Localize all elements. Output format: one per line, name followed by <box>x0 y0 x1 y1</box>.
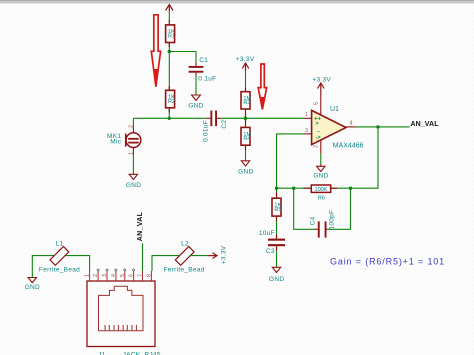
node junction C4 left <box>292 187 295 190</box>
resistor R6 <box>311 185 330 201</box>
power +3.3V top of R1 <box>166 5 173 12</box>
svg-text:AN_VAL: AN_VAL <box>411 121 440 128</box>
jack pin 6 <box>133 271 135 281</box>
node junction C4 right <box>349 187 352 190</box>
wire pin3 net <box>277 134 305 188</box>
capacitor C1 <box>189 57 217 83</box>
wire C3 to gnd <box>276 246 278 267</box>
jack pin 7 <box>142 271 144 281</box>
wire feedback vertical <box>351 127 379 188</box>
svg-text:JACK_RJ45: JACK_RJ45 <box>123 351 161 355</box>
resistor R4 <box>241 127 252 145</box>
ground under R4 <box>238 161 253 176</box>
op-amp pin 4 output <box>346 126 356 128</box>
svg-text:3: 3 <box>305 128 308 134</box>
resistor R3 <box>241 92 252 109</box>
svg-text:10uF: 10uF <box>259 230 275 237</box>
svg-text:Mic: Mic <box>110 139 121 146</box>
pin stubs <box>169 20 337 251</box>
wire mic to junction to C2 <box>133 117 206 119</box>
jack pin 4 <box>115 271 117 281</box>
wire gnd to L1 <box>32 256 54 278</box>
inductor L1 <box>39 240 80 273</box>
node junction output/feedback <box>376 125 379 128</box>
wire R6 left <box>277 187 310 189</box>
wire output to label <box>356 126 410 128</box>
wire junction to R2 <box>168 52 170 91</box>
svg-text:GND: GND <box>313 173 328 180</box>
resistor R5 <box>272 198 282 216</box>
wire C4 branch <box>294 188 351 229</box>
svg-text:U1: U1 <box>330 106 339 113</box>
node junction C2/R3/R4 <box>244 117 248 121</box>
svg-text:R2: R2 <box>168 99 175 105</box>
capacitor C4 <box>310 210 336 238</box>
svg-text:7: 7 <box>138 274 144 277</box>
svg-text:R3: R3 <box>243 100 250 106</box>
jack pin 3 <box>106 271 108 281</box>
svg-text:4: 4 <box>350 121 353 127</box>
svg-text:2: 2 <box>314 145 320 148</box>
wire R1 to junction <box>168 43 170 52</box>
op-amp U1 pin 1 <box>304 117 312 119</box>
wire node to R4 <box>245 118 247 127</box>
wire junction to R5 <box>276 188 278 198</box>
wire R2 to node <box>168 108 170 119</box>
probe arrow 2 <box>258 64 267 109</box>
svg-text:4: 4 <box>111 274 117 277</box>
capacitor C3 <box>259 230 285 255</box>
capacitor C2 <box>202 111 227 143</box>
wire node to op-amp pin1 <box>245 117 304 119</box>
svg-text:3: 3 <box>102 274 108 277</box>
svg-text:2: 2 <box>128 125 134 128</box>
jack inner silhouette <box>99 286 144 330</box>
resistor R1 <box>166 25 176 43</box>
svg-text:1: 1 <box>305 112 308 118</box>
ground under C1 <box>188 95 203 110</box>
svg-text:+3.3V: +3.3V <box>220 245 227 264</box>
svg-text:0.01uF: 0.01uF <box>202 120 209 142</box>
wire L2 to power <box>190 255 208 257</box>
power +3.3V right of L2 <box>208 245 227 264</box>
svg-text:AN_VAL: AN_VAL <box>137 211 144 241</box>
svg-text:R4: R4 <box>243 136 250 142</box>
svg-text:GND: GND <box>188 103 203 110</box>
svg-text:R5: R5 <box>274 207 281 213</box>
svg-text:->: -> <box>316 135 321 141</box>
inductor L2 <box>164 240 205 273</box>
wire C2 to node <box>222 117 246 119</box>
node junction R5/pin3 <box>275 187 278 190</box>
svg-text:1: 1 <box>85 274 91 277</box>
svg-text:0.1uF: 0.1uF <box>198 76 216 83</box>
svg-text:C3: C3 <box>266 248 275 255</box>
svg-text:Ferrite_Bead: Ferrite_Bead <box>164 267 205 274</box>
svg-text:GND: GND <box>126 182 141 189</box>
svg-text:>: > <box>316 121 319 127</box>
wire power to R3 <box>245 71 247 92</box>
op-amp U1 body <box>312 106 364 150</box>
svg-text:R1: R1 <box>168 34 175 40</box>
power +3.3V above op-amp <box>312 76 331 95</box>
jack pin 2 <box>97 271 99 281</box>
wire C1 to gnd <box>195 77 197 96</box>
ground under C3 <box>269 267 284 283</box>
power +3.3V above R3 <box>236 56 255 71</box>
wire R3 to node <box>245 109 247 118</box>
microphone MK1 <box>107 118 141 155</box>
svg-text:C2: C2 <box>221 120 228 129</box>
wire R1 top <box>168 11 170 21</box>
wire mic to gnd <box>132 154 134 175</box>
wire L1 to jack pin1 <box>65 256 90 271</box>
svg-text:+3.3V: +3.3V <box>236 56 255 63</box>
resistor R2 <box>166 90 176 108</box>
svg-text:6: 6 <box>129 274 135 277</box>
op-amp U1 pin 3 <box>304 133 312 135</box>
svg-text:5: 5 <box>120 274 126 277</box>
jack pin 5 <box>124 271 126 281</box>
svg-text:MAX4466: MAX4466 <box>333 143 364 150</box>
ground under op-amp <box>313 166 328 179</box>
wire AN_VAL to jack pin7 <box>142 244 144 272</box>
svg-text:C4: C4 <box>310 216 317 225</box>
jack pin 8 <box>150 271 152 281</box>
wire R6 right <box>331 187 351 189</box>
svg-text:Ferrite_Bead: Ferrite_Bead <box>39 267 80 274</box>
svg-text:R6: R6 <box>318 195 325 201</box>
node junction R1/R2/C1 <box>168 50 171 53</box>
jack pin 1 <box>89 271 91 281</box>
svg-text:GND: GND <box>25 284 40 291</box>
svg-text:100pF: 100pF <box>328 210 335 230</box>
op-amp pin 2 (GND) <box>320 140 322 153</box>
svg-text:GND: GND <box>238 169 253 176</box>
svg-text:GND: GND <box>269 276 284 283</box>
op-amp pin 5 (V+) <box>320 95 322 115</box>
svg-text:+3.3V: +3.3V <box>312 76 331 83</box>
node junction mic/R2/C2 <box>168 117 171 120</box>
ground under mic <box>126 174 141 189</box>
wire junction to C1 <box>169 52 196 63</box>
svg-text:Gain = (R6/R5)+1 = 101: Gain = (R6/R5)+1 = 101 <box>330 257 445 267</box>
svg-text:8: 8 <box>146 274 152 277</box>
wire jack pin8 to L2 <box>152 256 180 271</box>
svg-text:2: 2 <box>93 274 99 277</box>
probe arrow 1 <box>151 15 160 87</box>
svg-text:5: 5 <box>314 102 320 105</box>
svg-text:J1: J1 <box>98 351 106 355</box>
svg-text:L2: L2 <box>181 240 189 247</box>
connector J1 jack body <box>87 281 155 347</box>
wire R5 to C3 <box>276 216 278 239</box>
svg-text:100K: 100K <box>314 187 327 193</box>
wire R4 to gnd <box>245 145 247 161</box>
svg-text:C1: C1 <box>199 57 208 64</box>
svg-text:L1: L1 <box>56 240 64 247</box>
ground left of L1 <box>25 278 40 292</box>
